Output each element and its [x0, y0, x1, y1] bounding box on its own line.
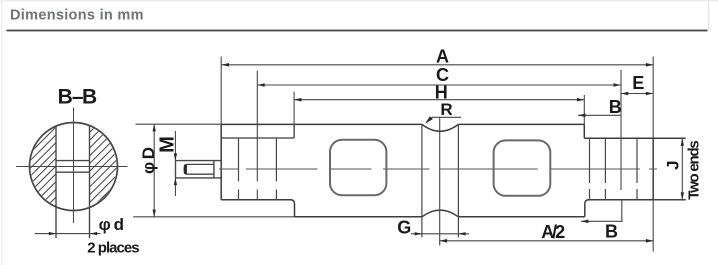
stub socket heavy end	[184, 165, 187, 174]
label 2 places	[87, 239, 139, 256]
right block hole line 1	[589, 138, 591, 200]
right pocket rounded square	[494, 140, 551, 195]
dimension G	[411, 233, 469, 235]
H left extension	[293, 92, 295, 138]
body outline top	[221, 124, 686, 138]
dimension A/2	[440, 240, 654, 242]
label phi-D rotated	[139, 147, 158, 174]
cross bore lines in slot	[56, 161, 90, 173]
svg-text:A: A	[436, 47, 449, 67]
body right edge	[652, 138, 654, 200]
threaded stub outer rectangle	[176, 161, 221, 178]
label J rotated	[664, 160, 683, 169]
neck left edge / G extension	[421, 124, 423, 237]
A left extension	[220, 57, 222, 125]
title underline rule	[7, 30, 708, 32]
stub neck divider	[213, 161, 215, 178]
centre section line	[439, 117, 441, 245]
stub socket slot	[184, 164, 214, 174]
left block bottom and fillet	[221, 200, 294, 217]
right block hole line 2	[604, 138, 606, 200]
right hole / E-C extension	[620, 70, 623, 221]
dimension H	[294, 99, 584, 101]
A right extension	[652, 57, 654, 252]
centre neck notch arc top	[422, 124, 459, 131]
svg-text:d: d	[114, 215, 124, 234]
svg-text:Two ends: Two ends	[685, 140, 702, 200]
dimension M line	[174, 131, 176, 196]
section label B-B	[58, 86, 98, 109]
circle horizontal centerline	[16, 166, 128, 168]
dimension A	[222, 64, 654, 66]
left pocket rounded square	[330, 140, 386, 195]
left block hole centerline / C extension	[256, 71, 258, 200]
dimension E	[621, 93, 653, 95]
dimension phi-d	[35, 233, 101, 235]
dimension C	[257, 84, 621, 86]
left block hole line 2	[275, 138, 277, 200]
top hairline border	[0, 0, 718, 2]
label M rotated	[157, 136, 179, 153]
svg-text:J: J	[664, 160, 683, 169]
svg-text:A/2: A/2	[541, 222, 565, 242]
svg-text:E: E	[632, 73, 644, 93]
svg-text:φD: φD	[139, 147, 158, 174]
svg-text:Dimensions in mm: Dimensions in mm	[10, 7, 144, 23]
body left edge	[220, 124, 222, 199]
dimension phi-D line	[153, 124, 155, 217]
dimension phi-D ticks	[133, 124, 294, 217]
svg-text:φ: φ	[99, 215, 111, 234]
slot left edge / phi-d extension	[55, 126, 57, 238]
svg-text:B: B	[609, 97, 622, 117]
left block hole line 1	[238, 138, 240, 200]
section circle B-B	[30, 123, 118, 211]
svg-text:R: R	[440, 100, 452, 119]
right block hole line 3	[636, 138, 638, 200]
svg-text:B: B	[58, 86, 73, 109]
label R and leader	[440, 100, 452, 119]
svg-text:B: B	[82, 86, 97, 109]
dimension B top	[578, 114, 621, 116]
circle vertical centerline	[73, 108, 75, 224]
slot right edge / phi-d extension	[89, 126, 91, 239]
svg-text:M: M	[157, 136, 179, 153]
body horizontal centerline	[219, 168, 657, 170]
svg-text:G: G	[397, 217, 411, 237]
left block inner step line	[221, 124, 294, 138]
right block bottom step and fillet	[585, 200, 686, 217]
beam bottom with centre bump	[295, 210, 585, 217]
dimension B bottom	[581, 220, 623, 222]
J top extension (merged with block top) and bottom extension	[653, 199, 686, 201]
svg-text:B: B	[605, 222, 618, 242]
B top extension	[583, 95, 585, 124]
svg-text:2 places: 2 places	[87, 239, 139, 256]
neck right edge / G extension	[457, 124, 459, 237]
dimension J	[681, 139, 683, 200]
label Two ends rotated	[685, 140, 702, 200]
